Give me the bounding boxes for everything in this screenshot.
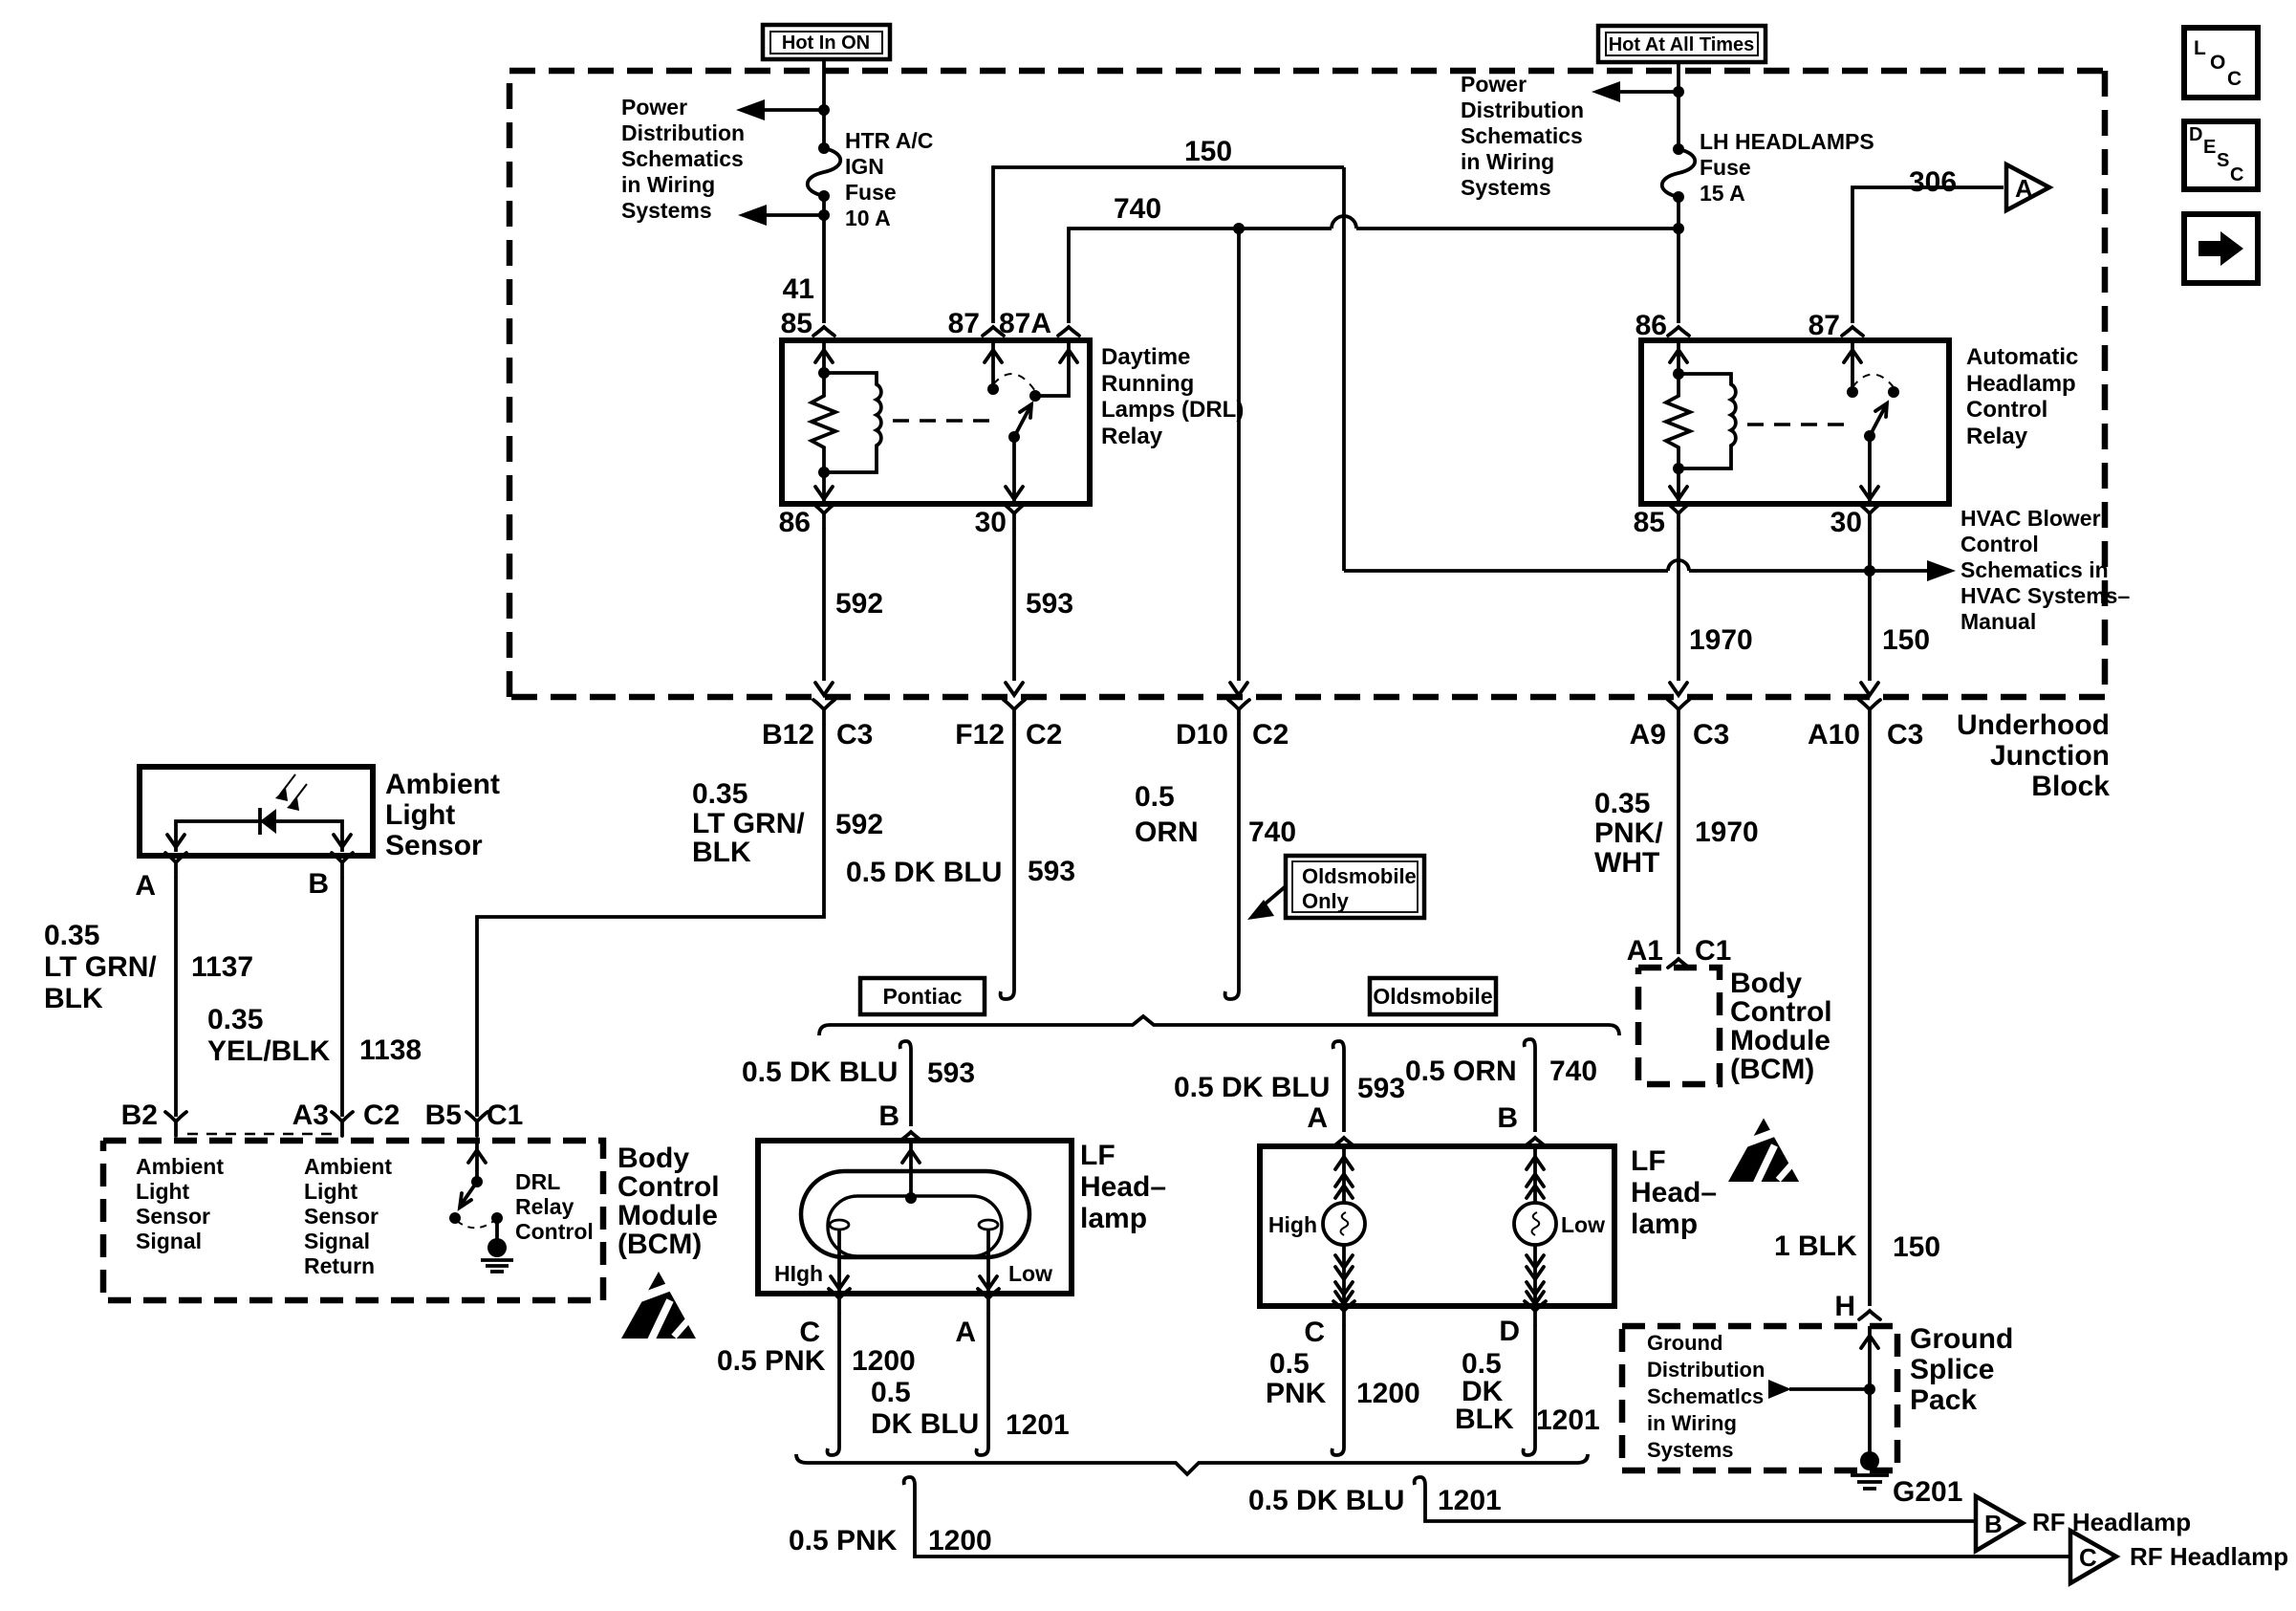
svg-text:1970: 1970 [1689, 624, 1753, 656]
connector F12 C2 [955, 700, 1062, 751]
svg-text:A1: A1 [1627, 935, 1663, 967]
svg-text:Manual: Manual [1960, 609, 2036, 634]
junction dot power distribution tap 1 [818, 104, 830, 116]
junction dot 740 branch [1233, 223, 1245, 234]
svg-text:C: C [2230, 164, 2243, 185]
svg-text:1 BLK: 1 BLK [1774, 1230, 1857, 1262]
svg-text:Pontiac: Pontiac [882, 984, 962, 1009]
svg-text:Ambient: Ambient [385, 769, 500, 800]
svg-text:LF: LF [1631, 1145, 1666, 1177]
svg-text:0.35: 0.35 [692, 778, 747, 810]
svg-text:F12: F12 [955, 719, 1005, 751]
svg-text:BLK: BLK [692, 837, 751, 868]
resistor DRL relay [812, 373, 835, 472]
svg-text:85: 85 [781, 308, 812, 339]
svg-text:Low: Low [1561, 1212, 1605, 1237]
inductor auto relay coil [1679, 374, 1736, 468]
symbol DESC [2184, 121, 2258, 189]
wire circuit 150 inside junction block [1861, 528, 1878, 695]
svg-text:LT GRN/: LT GRN/ [692, 808, 805, 839]
svg-text:D10: D10 [1176, 719, 1228, 751]
svg-text:Head–: Head– [1631, 1177, 1717, 1208]
wire auto relay actuation dashed arc [1852, 375, 1894, 388]
svg-text:H: H [1834, 1291, 1855, 1322]
svg-text:S: S [2217, 150, 2229, 171]
svg-text:in Wiring: in Wiring [1647, 1411, 1737, 1435]
wire Olds low bulb feed [1527, 1146, 1544, 1203]
svg-text:593: 593 [1026, 588, 1073, 620]
svg-text:B2: B2 [121, 1099, 158, 1131]
label Body Control Module (BCM) right [1730, 968, 1832, 1085]
svg-text:LF: LF [1080, 1140, 1116, 1171]
wire auto relay pin 87 fixed contact [1844, 340, 1861, 392]
svg-text:Headlamp: Headlamp [1966, 371, 2076, 397]
svg-text:Control: Control [1966, 397, 2047, 423]
connector Pontiac headlamp pin B [878, 1100, 921, 1141]
connector pin 85 DRL relay [813, 327, 834, 336]
fuse LH HEADLAMPS Fuse 15 A [1662, 143, 1696, 203]
svg-text:D: D [1499, 1316, 1520, 1347]
symbol right-arrow box [2184, 214, 2258, 283]
wire circuit 1201 to RF headlamp [1415, 1477, 1974, 1521]
lamp LF Headlamp (Oldsmobile) box [1260, 1146, 1614, 1306]
label circuit 740 (top) [1114, 193, 1161, 225]
svg-text:86: 86 [1635, 310, 1667, 341]
connector Olds pin D [1499, 1301, 1546, 1347]
svg-text:Distribution: Distribution [1647, 1358, 1765, 1382]
label 0.5 DK BLU (Pontiac 593) [742, 1056, 898, 1088]
svg-text:593: 593 [927, 1057, 975, 1089]
symbol LOC [2184, 28, 2258, 98]
svg-text:740: 740 [1114, 193, 1161, 225]
svg-text:Distribution: Distribution [621, 120, 745, 145]
Underhood Junction Block dashed border [509, 71, 2105, 697]
relay K1 Daytime Running Lamps (DRL) Relay box [782, 340, 1090, 504]
svg-text:DK BLU: DK BLU [871, 1408, 979, 1440]
connector H ground splice [1834, 1291, 1880, 1322]
svg-text:C3: C3 [1887, 719, 1923, 751]
svg-text:A9: A9 [1630, 719, 1666, 751]
svg-text:0.5 ORN: 0.5 ORN [1405, 1056, 1517, 1087]
label circuit 593 (Olds) [1357, 1073, 1405, 1104]
svg-text:Daytime: Daytime [1101, 344, 1190, 370]
wire circuit 593 pigtail to Pontiac branch [1001, 724, 1014, 999]
label circuit 306 [1909, 166, 1957, 198]
svg-text:1201: 1201 [1006, 1409, 1070, 1441]
svg-text:in Wiring: in Wiring [1461, 149, 1554, 174]
node Hot At All Times [1598, 26, 1765, 62]
svg-text:BLK: BLK [44, 983, 103, 1014]
svg-text:87A: 87A [999, 308, 1051, 339]
label Ground Splice Pack [1910, 1323, 2013, 1416]
svg-text:A3: A3 [292, 1099, 329, 1131]
svg-text:0.5: 0.5 [1135, 781, 1175, 813]
svg-text:DRL: DRL [515, 1169, 560, 1194]
wire circuit 740 horizontal [1069, 216, 1679, 323]
label pin 85 [781, 308, 812, 339]
svg-text:Sensor: Sensor [385, 830, 483, 861]
lamp filament terminal low [979, 1220, 998, 1230]
label circuit 1200 (bottom) [928, 1525, 992, 1557]
svg-text:lamp: lamp [1080, 1203, 1147, 1234]
node Hot In ON [763, 25, 890, 59]
label circuit 592 (upper) [835, 588, 883, 620]
wire circuit 1137 sensor signal [174, 877, 178, 1117]
label 1 BLK (150) [1774, 1230, 1857, 1262]
svg-text:Light: Light [304, 1179, 358, 1204]
svg-text:Oldsmobile: Oldsmobile [1302, 864, 1417, 888]
svg-text:1201: 1201 [1438, 1485, 1502, 1516]
label High (Pontiac) [774, 1261, 823, 1286]
connector Olds pin B [1497, 1102, 1546, 1146]
connector D10 C2 [1176, 700, 1289, 751]
lamp dual filament bulb outline [801, 1171, 1029, 1257]
fuse HTR A/C IGN Fuse 10 A [808, 142, 841, 202]
label DRL Relay Control [515, 1169, 594, 1244]
wire circuit 1200 to RF headlamp [904, 1477, 2069, 1557]
svg-text:O: O [2210, 52, 2225, 74]
svg-text:A: A [955, 1317, 976, 1348]
wire circuit 592 inside junction block [815, 528, 833, 695]
svg-text:HIgh: HIgh [774, 1261, 823, 1286]
svg-text:RF Headlamp: RF Headlamp [2130, 1542, 2288, 1571]
svg-text:Underhood: Underhood [1957, 709, 2110, 741]
wire Olds high bulb return [1335, 1245, 1353, 1306]
svg-text:C: C [1304, 1317, 1325, 1348]
label 0.5 DK BLU (593) [846, 857, 1002, 888]
node Oldsmobile Only callout [1286, 856, 1424, 918]
wire power distribution tap 3 with arrow [1592, 81, 1679, 102]
label 0.5 PNK (bottom 1200) [789, 1525, 898, 1557]
switch auto relay blade [1870, 403, 1887, 436]
label 0.35 LT GRN/BLK (1137) [44, 920, 157, 1014]
label circuit 593 (lower) [1028, 856, 1075, 887]
lamp filament terminal high [830, 1220, 849, 1230]
svg-text:Oldsmobile: Oldsmobile [1373, 984, 1492, 1009]
svg-text:B12: B12 [762, 719, 814, 751]
connector A9 C3 [1630, 700, 1730, 751]
connector triangle A (306 to RF) [2006, 164, 2049, 210]
label circuit 1200 (Olds) [1356, 1378, 1420, 1409]
label circuit 150 (upper) [1882, 624, 1930, 656]
connector pin 86 auto relay [1668, 327, 1689, 336]
wire Pontiac headlamp pin B feed [900, 1041, 911, 1126]
svg-text:Schematics in: Schematics in [1960, 557, 2109, 582]
symbol ESD sensitive (right BCM) [1728, 1119, 1799, 1184]
svg-text:C2: C2 [1252, 719, 1289, 751]
svg-text:HVAC Systems–: HVAC Systems– [1960, 583, 2130, 608]
svg-text:41: 41 [783, 273, 814, 305]
junction dot power distribution tap 2 [818, 209, 830, 221]
label LF Headlamp (Pontiac) [1080, 1140, 1166, 1234]
svg-text:BLK: BLK [1455, 1404, 1514, 1435]
svg-text:C3: C3 [836, 719, 873, 751]
connector triangle C (1200 to RF Headlamp) [2070, 1531, 2116, 1583]
wire DRL coil link dashed [893, 419, 997, 422]
svg-text:B: B [878, 1100, 899, 1132]
svg-text:593: 593 [1357, 1073, 1405, 1104]
wire circuit 1138 signal return [340, 877, 344, 1117]
svg-text:G201: G201 [1893, 1476, 1962, 1508]
svg-text:0.35: 0.35 [207, 1004, 263, 1035]
wire power distribution tap 2 with arrow [738, 205, 824, 226]
svg-text:1200: 1200 [1356, 1378, 1420, 1409]
label 0.5 ORN (740) [1135, 781, 1199, 848]
wire ambient sensor internal [167, 821, 351, 852]
svg-text:0.5 PNK: 0.5 PNK [789, 1525, 898, 1557]
diode photodiode D1 [260, 808, 276, 835]
svg-text:1201: 1201 [1536, 1404, 1600, 1436]
svg-text:HVAC Blower: HVAC Blower [1960, 506, 2101, 531]
wire circuit 740 branch down to D10 [1237, 229, 1241, 681]
junction dot DRL fixed contact 87 [987, 383, 999, 395]
svg-text:Control: Control [1730, 996, 1832, 1028]
svg-text:Control: Control [617, 1171, 720, 1203]
svg-text:Light: Light [136, 1179, 190, 1204]
wire circuit 150 to ground splice pack [1868, 724, 1872, 1306]
junction dot DRL coil top [818, 367, 830, 379]
wire driver dashed arc [457, 1220, 495, 1228]
wire DRL actuation dashed arc [993, 374, 1035, 391]
node branch brace bottom [796, 1454, 1588, 1474]
svg-text:Ambient: Ambient [136, 1154, 224, 1179]
connector A1 C1 [1627, 935, 1732, 968]
label 0.5 DK BLU (bottom 1201) [1248, 1485, 1404, 1516]
label 0.35 YEL/BLK (1138) [207, 1004, 331, 1067]
label pin 87 DRL relay [948, 308, 980, 339]
label Low (Pontiac) [1008, 1261, 1052, 1286]
junction dot auto relay moving contact [1888, 386, 1899, 398]
svg-text:A10: A10 [1808, 719, 1860, 751]
symbol ESD sensitive (left BCM) [621, 1272, 696, 1340]
wire Pontiac pin B into bulb [902, 1141, 920, 1204]
label circuit 150 (ground leg) [1893, 1231, 1940, 1263]
wire Oldsmobile headlamp pin B feed [1525, 1039, 1535, 1132]
wire circuit 1200 (Pontiac) [828, 1313, 840, 1455]
svg-text:A: A [2015, 174, 2033, 203]
label pin 86 (auto relay) [1635, 310, 1667, 341]
wire ground distribution tap with arrow [1768, 1380, 1870, 1399]
label RF Headlamp (B) [2032, 1508, 2191, 1536]
junction dot auto relay switch pivot [1864, 430, 1875, 442]
svg-text:86: 86 [779, 507, 811, 538]
svg-text:Fuse: Fuse [845, 180, 897, 205]
svg-text:592: 592 [835, 809, 883, 840]
svg-text:C2: C2 [363, 1099, 400, 1131]
wire Olds low bulb return [1527, 1245, 1544, 1306]
connector Pontiac pin C [799, 1289, 850, 1348]
connector sensor pin A [135, 853, 186, 902]
connector pin 87 auto relay [1842, 327, 1863, 336]
wire auto relay coil feed pin 86 [1670, 340, 1687, 374]
wire Olds high bulb feed [1335, 1146, 1353, 1203]
svg-text:WHT: WHT [1594, 847, 1659, 879]
svg-text:306: 306 [1909, 166, 1957, 198]
svg-text:0.5 DK BLU: 0.5 DK BLU [1248, 1485, 1404, 1516]
svg-text:Control: Control [515, 1219, 594, 1244]
connector B5 C1 [425, 1099, 524, 1136]
junction dot power distribution tap 3 [1673, 86, 1684, 98]
svg-text:E: E [2203, 137, 2216, 158]
svg-text:Light: Light [385, 799, 455, 831]
wire Hot At All Times feed [1677, 62, 1680, 323]
svg-text:D: D [2189, 124, 2202, 145]
lamp high beam bulb (Olds) [1268, 1203, 1365, 1245]
wire auto relay coil link dashed [1747, 423, 1852, 425]
svg-text:30: 30 [975, 507, 1007, 538]
svg-text:1200: 1200 [852, 1345, 916, 1377]
svg-text:lamp: lamp [1631, 1208, 1698, 1240]
node Oldsmobile callout [1370, 978, 1496, 1014]
label circuit 592 (lower) [835, 809, 883, 840]
svg-text:85: 85 [1634, 507, 1665, 538]
label circuit 1201 (Pontiac) [1006, 1409, 1070, 1441]
svg-text:Ambient: Ambient [304, 1154, 392, 1179]
lamp low beam bulb (Olds) [1514, 1203, 1605, 1245]
svg-text:(BCM): (BCM) [1730, 1054, 1814, 1085]
label fuse LH HEADLAMPS Fuse 15 A [1700, 129, 1874, 206]
label circuit 740 (Olds) [1549, 1056, 1597, 1087]
connector pin 30 below auto relay [1830, 504, 1880, 538]
label 0.5 DK BLU (Pontiac 1201) [871, 1377, 979, 1440]
svg-text:740: 740 [1248, 816, 1296, 848]
junction dot DRL moving contact [1029, 390, 1041, 402]
svg-text:B: B [308, 868, 329, 900]
svg-text:0.5 DK BLU: 0.5 DK BLU [846, 857, 1002, 888]
module Body Control Module (BCM) right dashed box [1638, 968, 1720, 1084]
svg-text:Schematics: Schematics [621, 146, 744, 171]
label circuit 1970 (lower) [1695, 816, 1759, 848]
connector pin 85 below auto relay [1634, 504, 1689, 538]
label circuit 1137 [191, 951, 253, 983]
svg-text:Systems: Systems [621, 198, 712, 223]
svg-text:L: L [2194, 37, 2206, 59]
svg-text:0.5 DK BLU: 0.5 DK BLU [1174, 1072, 1330, 1103]
svg-text:Control: Control [1960, 532, 2039, 556]
svg-text:Module: Module [617, 1200, 718, 1231]
connector Pontiac pin A [955, 1289, 999, 1348]
svg-text:150: 150 [1893, 1231, 1940, 1263]
svg-text:Block: Block [2031, 771, 2110, 802]
svg-text:Ground: Ground [1910, 1323, 2013, 1355]
svg-text:YEL/BLK: YEL/BLK [207, 1035, 331, 1067]
svg-text:Running: Running [1101, 371, 1194, 397]
label Automatic Headlamp Control Relay [1966, 344, 2078, 449]
wire 740 arrow at junction exit [1230, 683, 1247, 695]
node Power Distribution Schematics in Wiring Systems (left) [621, 95, 745, 223]
ground G201 [1851, 1451, 1889, 1489]
wire circuit 1201 (Pontiac) [977, 1313, 989, 1455]
label LF Headlamp (Oldsmobile) [1631, 1145, 1717, 1240]
label fuse HTR A/C IGN Fuse 10 A [845, 128, 933, 230]
label circuit 1970 (upper) [1689, 624, 1753, 656]
connector pin 87A DRL relay [1058, 327, 1079, 336]
svg-text:Hot In ON: Hot In ON [782, 33, 870, 54]
connector sensor pin B [308, 853, 353, 900]
connector A3 C2 [292, 1099, 401, 1136]
label circuit 150 (top) [1184, 136, 1232, 167]
svg-text:C2: C2 [1026, 719, 1062, 751]
connector triangle B (1201 to RF Headlamp) [1976, 1496, 2023, 1551]
svg-text:C: C [2227, 68, 2242, 90]
svg-text:Ground: Ground [1647, 1331, 1722, 1355]
svg-text:740: 740 [1549, 1056, 1597, 1087]
svg-text:Pack: Pack [1910, 1384, 1977, 1416]
junction dot auto relay coil bottom [1673, 463, 1684, 474]
relay K2 Automatic Headlamp Control Relay box [1641, 340, 1949, 504]
wire HVAC blower feed [1344, 560, 1956, 581]
label Ambient Light Sensor Signal Return [304, 1154, 392, 1278]
label circuit 1201 (bottom) [1438, 1485, 1502, 1516]
svg-text:PNK: PNK [1266, 1378, 1327, 1409]
junction dot DRL coil bottom [818, 467, 830, 478]
junction dot 740 joins fuse output [1673, 223, 1684, 234]
ground BCM internal [481, 1212, 513, 1272]
svg-text:Signal: Signal [136, 1229, 202, 1253]
label Daytime Running Lamps (DRL) Relay [1101, 344, 1244, 449]
label circuit 740 (lower) [1248, 816, 1296, 848]
node branch brace top [819, 1016, 1619, 1035]
svg-text:Relay: Relay [515, 1194, 574, 1219]
wire auto relay pin 30 out [1861, 436, 1878, 504]
svg-text:150: 150 [1882, 624, 1930, 656]
svg-text:ORN: ORN [1135, 816, 1199, 848]
svg-text:Lamps (DRL): Lamps (DRL) [1101, 397, 1244, 423]
junction dot ground splice [1864, 1383, 1875, 1395]
svg-text:Head–: Head– [1080, 1171, 1166, 1203]
svg-text:0.5 PNK: 0.5 PNK [717, 1345, 826, 1377]
switch DRL relay control driver [449, 1141, 486, 1224]
label Ambient Light Sensor [385, 769, 500, 861]
junction dot auto relay fixed contact [1847, 386, 1858, 398]
wire circuit 150 from DRL pin 87 [993, 167, 1344, 323]
svg-text:Sensor: Sensor [304, 1204, 379, 1229]
svg-text:0.5: 0.5 [871, 1377, 911, 1408]
wire DRL pin 86 out [815, 472, 833, 504]
wire circuit 593 inside junction block [1006, 528, 1023, 695]
wire connector boundary dashes [187, 1133, 333, 1135]
svg-text:150: 150 [1184, 136, 1232, 167]
svg-text:Systems: Systems [1461, 175, 1551, 200]
label 0.5 PNK (Pontiac 1200) [717, 1345, 826, 1377]
svg-text:0.5 DK BLU: 0.5 DK BLU [742, 1056, 898, 1088]
svg-text:B: B [1984, 1510, 2003, 1538]
wire circuit 1200 (Olds) [1332, 1325, 1345, 1455]
label pin 87 auto relay [1809, 310, 1840, 341]
connector Olds pin A [1307, 1102, 1354, 1146]
label circuit 41 [783, 273, 814, 305]
junction dot HVAC tap on 150 [1864, 565, 1875, 577]
svg-text:LT GRN/: LT GRN/ [44, 951, 157, 983]
svg-text:15 A: 15 A [1700, 181, 1745, 206]
svg-text:593: 593 [1028, 856, 1075, 887]
wire Pontiac low beam out [980, 1230, 997, 1294]
label circuit 593 (Pontiac) [927, 1057, 975, 1089]
svg-text:Return: Return [304, 1253, 375, 1278]
svg-text:1138: 1138 [359, 1034, 422, 1066]
label circuit 1138 [359, 1034, 422, 1066]
svg-text:C3: C3 [1693, 719, 1729, 751]
svg-text:C1: C1 [1695, 935, 1731, 967]
wire circuit 592 to BCM pin B5 [477, 724, 824, 1117]
svg-text:HTR A/C: HTR A/C [845, 128, 933, 153]
svg-text:1970: 1970 [1695, 816, 1759, 848]
svg-text:in Wiring: in Wiring [621, 172, 715, 197]
label 0.35 LT GRN/BLK (592) [692, 778, 805, 868]
connector pin 87 DRL relay [983, 327, 1004, 336]
svg-text:B5: B5 [425, 1099, 462, 1131]
connector Olds pin C [1304, 1301, 1354, 1348]
